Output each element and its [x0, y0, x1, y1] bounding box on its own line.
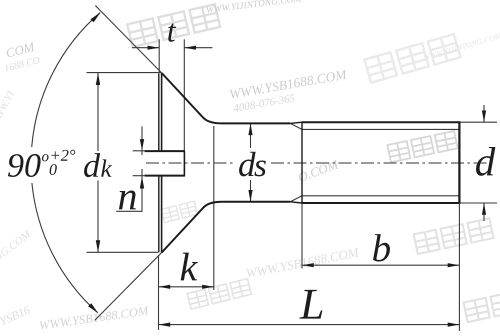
svg-text:WWW.YSB1688.COM: WWW.YSB1688.COM: [245, 244, 361, 281]
svg-text:k: k: [100, 156, 112, 183]
svg-text:L: L: [299, 280, 325, 329]
svg-text:d: d: [83, 148, 101, 185]
svg-text:t: t: [167, 12, 177, 48]
svg-text:NG.COM: NG.COM: [0, 228, 34, 265]
svg-text:s: s: [254, 148, 267, 184]
svg-text:b: b: [372, 227, 392, 270]
svg-text:90: 90: [7, 148, 41, 185]
svg-text:0: 0: [49, 162, 57, 179]
svg-text:YSB16: YSB16: [0, 303, 32, 329]
svg-text:k: k: [179, 244, 198, 289]
svg-text:d: d: [475, 138, 496, 184]
svg-text:n: n: [117, 173, 137, 218]
svg-text:WWW.YIJINTONG.COM: WWW.YIJINTONG.COM: [205, 0, 303, 16]
svg-text:WWW.YI: WWW.YI: [0, 88, 18, 129]
